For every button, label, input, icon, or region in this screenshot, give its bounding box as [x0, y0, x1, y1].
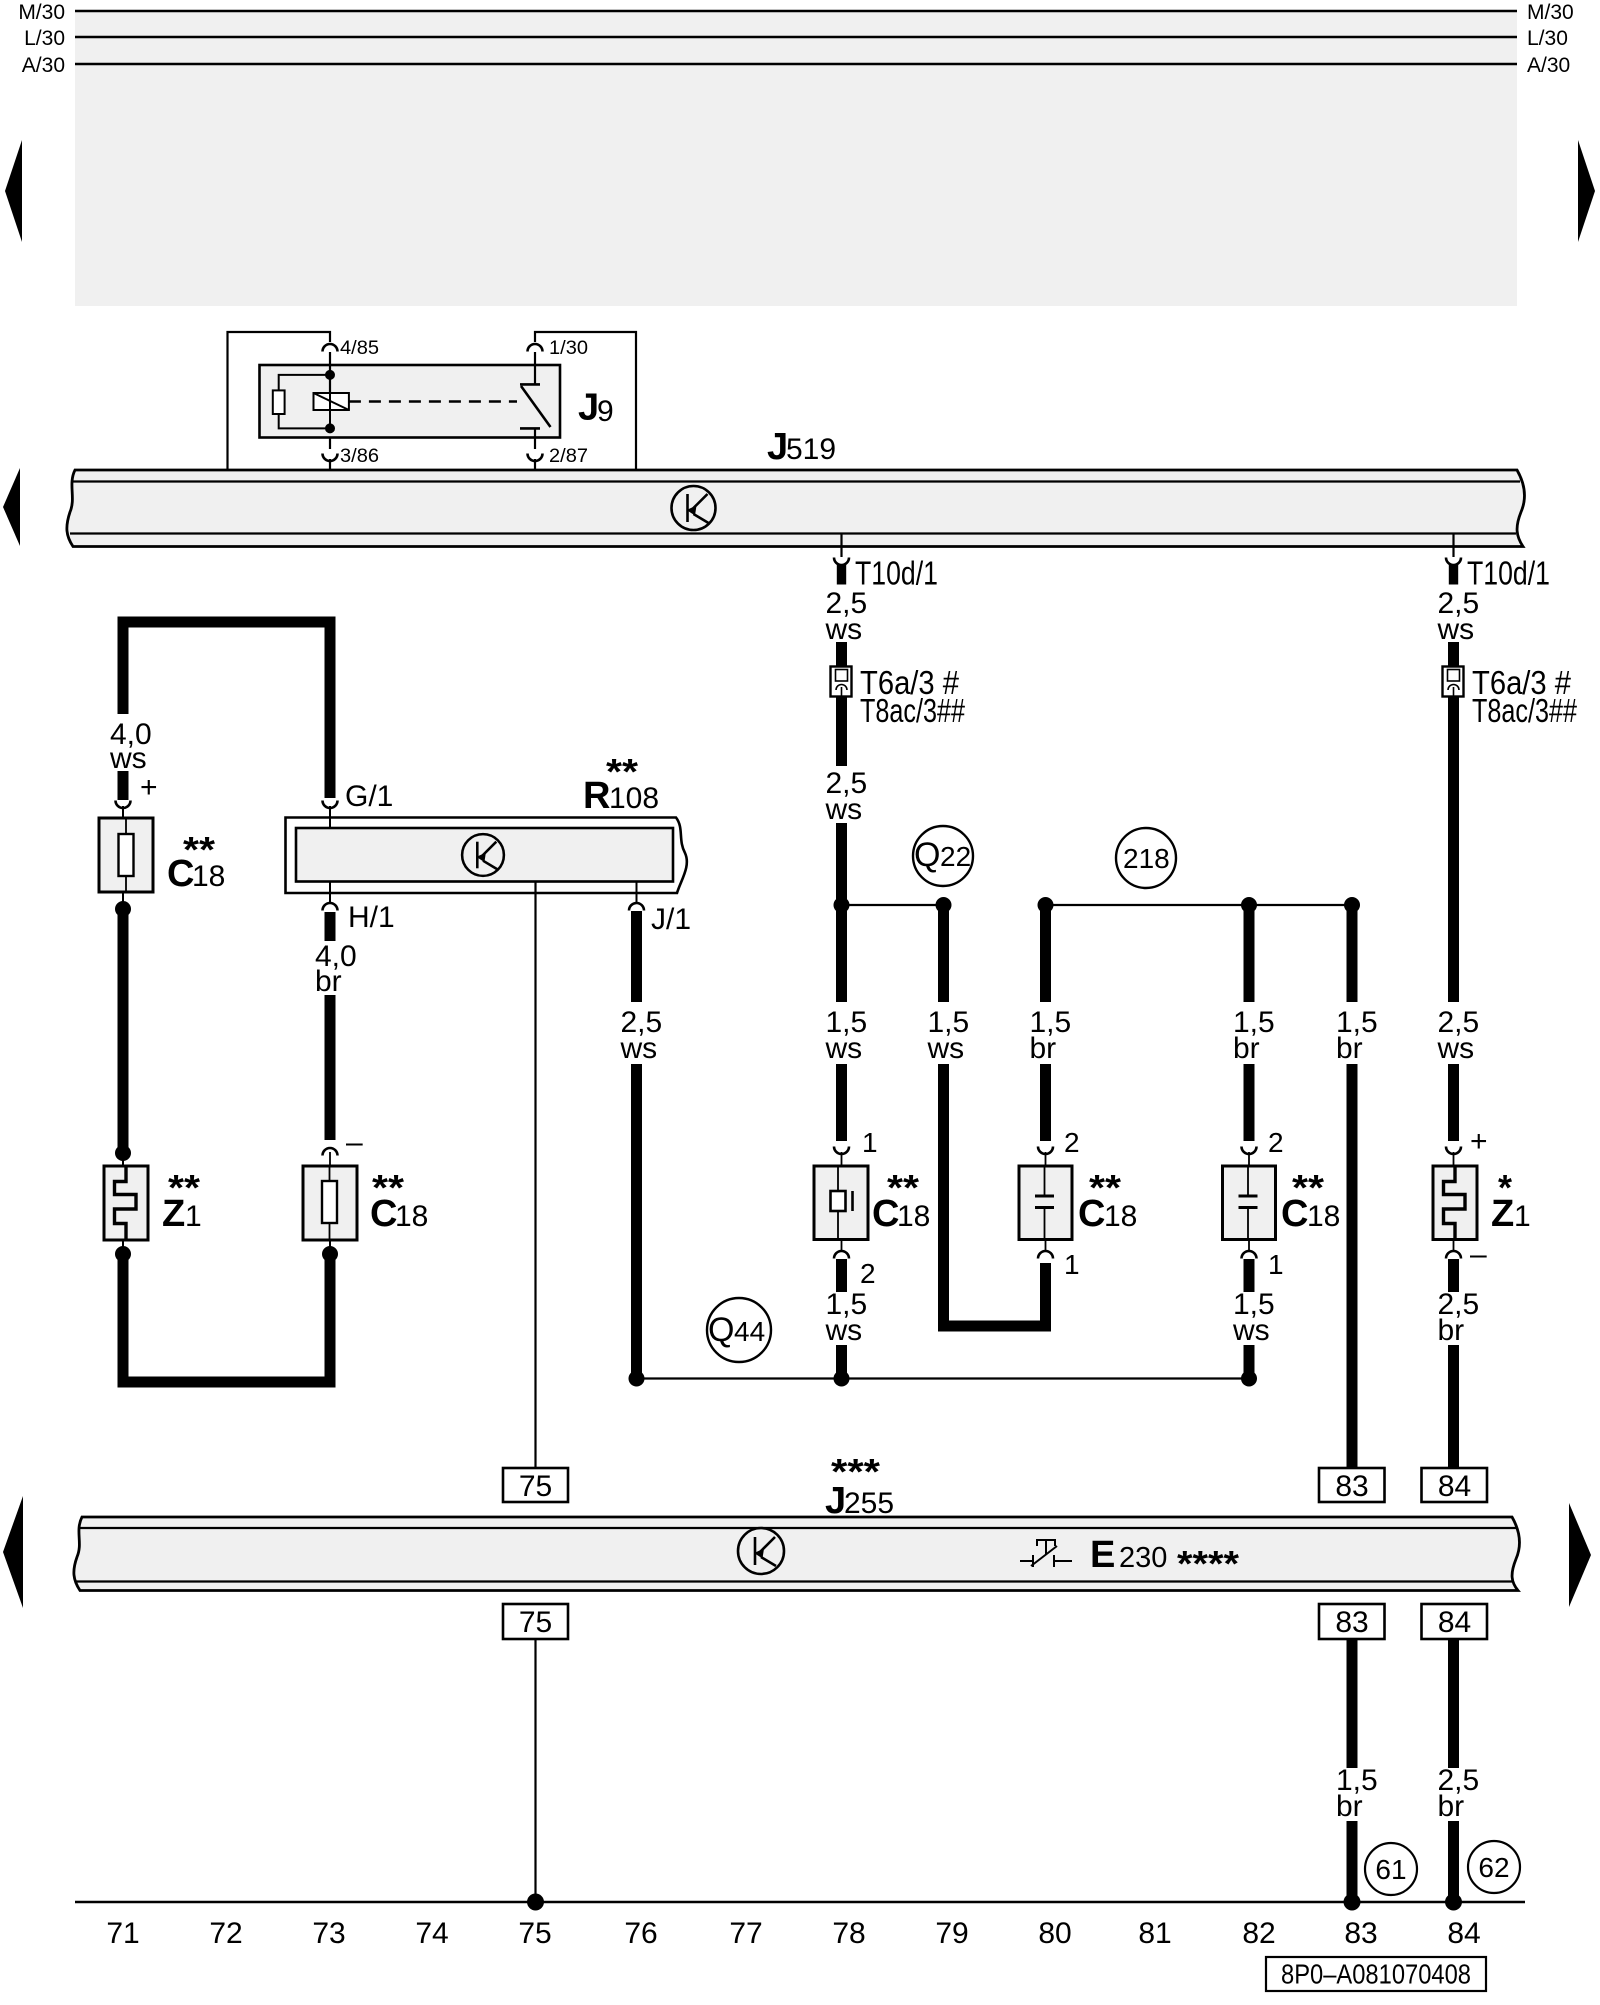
resistor top branch wire: [279, 375, 330, 391]
wire H/1 down to C18 minus thick: [325, 912, 336, 941]
pin 2/87 connector arc: [528, 454, 543, 462]
node Q44 col76: [629, 1371, 645, 1387]
svg-text:79: 79: [935, 1917, 968, 1950]
heated washer nozzle Z1 box: [104, 1166, 148, 1240]
wire node link Q22: [842, 904, 944, 906]
heated washer jet C18 box (+): [99, 818, 153, 892]
pin H/1 wire below R108: [329, 882, 331, 904]
wire col78 thick below pin 2: [836, 1259, 847, 1292]
capacitor C18 mid pin 1 arc: [1038, 1251, 1053, 1259]
E230 bus inner top line: [79, 1527, 1516, 1529]
svg-text:E: E: [1090, 1534, 1115, 1576]
pin 3/86 wire below relay: [329, 438, 331, 450]
wire into Z1: [122, 1153, 124, 1166]
wire col84 thick below box: [1448, 1639, 1459, 1768]
relay coil diagonal: [314, 393, 349, 410]
pin 3/86 connector arc: [323, 454, 338, 462]
capacitor C18 right pin 2 arc: [1242, 1147, 1257, 1155]
wire into suppressor: [841, 1152, 843, 1166]
connector plus arc col71: [116, 801, 131, 809]
E230 bus inner bottom line: [76, 1580, 1512, 1582]
svg-text:G/1: G/1: [345, 780, 393, 813]
svg-text:T10d/1: T10d/1: [1467, 555, 1550, 592]
node col83 junction: [1344, 897, 1360, 913]
wire node link 218: [1046, 904, 1353, 906]
wire col84 thick below minus: [1448, 1259, 1459, 1292]
svg-text:2: 2: [1064, 1127, 1080, 1158]
svg-text:75: 75: [518, 1917, 551, 1950]
wire col78 thick segment: [836, 642, 847, 666]
heated washer nozzle Z1 right box: [1433, 1166, 1477, 1240]
svg-text:br: br: [1438, 1314, 1465, 1347]
svg-text:C: C: [370, 1193, 397, 1235]
connection point 218 circle: [1116, 828, 1176, 888]
capacitor C18 right box: [1223, 1166, 1276, 1240]
svg-text:77: 77: [729, 1917, 762, 1950]
heated seat switch E230 bus bar: [74, 1517, 1520, 1591]
wire col84 long thick segment: [1448, 697, 1459, 1003]
wire col83 thick to rail: [1347, 1821, 1358, 1902]
R108 inner body: [296, 828, 673, 882]
resistor bottom branch wire: [279, 414, 330, 428]
heated washer jet supply U-wire: [123, 622, 330, 798]
svg-text:ws: ws: [825, 1032, 863, 1065]
svg-text:L/30: L/30: [1527, 27, 1568, 50]
svg-text:ws: ws: [1437, 613, 1475, 646]
pin G/1 connector arc: [323, 801, 338, 809]
svg-text:62: 62: [1478, 1852, 1509, 1883]
svg-text:****: ****: [1177, 1543, 1239, 1584]
wire col79 elbow to washer pump C18 pin 1: [944, 1064, 1046, 1326]
svg-text:84: 84: [1438, 1606, 1471, 1639]
terminal 84 upper box: [1422, 1468, 1488, 1502]
relay switch top contact: [520, 383, 540, 386]
rail L/30: [75, 36, 1517, 38]
wire col78 thick below node: [836, 905, 847, 1002]
wire into C18 minus box: [329, 1240, 331, 1254]
svg-text:br: br: [1233, 1032, 1260, 1065]
R108 internal connection symbol: [462, 834, 504, 876]
capacitor C18 right pin 1 arc: [1242, 1251, 1257, 1259]
suppressor element: [837, 1166, 839, 1191]
heated washer jet C18 box (-): [303, 1166, 357, 1240]
wire J/1 thick segment: [631, 911, 642, 1002]
pin J/1 wire below R108: [636, 882, 638, 904]
connection point Q22 circle: [913, 826, 973, 886]
diagram part number box: [1266, 1957, 1486, 1991]
connector T10d/1 left arc: [834, 558, 849, 566]
top band right continuation arrow: [1578, 140, 1595, 242]
svg-text:T8ac/3##: T8ac/3##: [1472, 692, 1577, 729]
relay J9 outer bracket left: [228, 332, 331, 470]
svg-text:br: br: [1336, 1790, 1363, 1823]
Z1 heater meander element: [115, 1166, 137, 1240]
svg-text:ws: ws: [1232, 1314, 1270, 1347]
suppressor C18 pin 2 arc: [834, 1251, 849, 1259]
svg-text:C: C: [167, 853, 194, 895]
terminal 83 upper box: [1319, 1468, 1385, 1502]
svg-text:83: 83: [1344, 1917, 1377, 1950]
wire col82 thick to pin 2: [1244, 1064, 1255, 1141]
svg-text:71: 71: [106, 1917, 139, 1950]
capacitor C18 mid pin 2 arc: [1038, 1147, 1053, 1155]
wire col84 thick to terminal 84: [1448, 1345, 1459, 1468]
wire into capacitor right: [1248, 1152, 1250, 1166]
relay J9 outer bracket right: [535, 332, 636, 470]
wire below suppressor: [841, 1240, 843, 1252]
ground reference 62 circle: [1468, 1841, 1520, 1893]
wire col78 thick to Q44 node: [836, 1345, 847, 1379]
Z1 right heater meander element: [1444, 1166, 1466, 1240]
wire into C18 washer jet box: [122, 806, 124, 818]
top band left continuation arrow: [5, 140, 22, 242]
wire below capacitor mid: [1045, 1240, 1047, 1252]
svg-text:84: 84: [1438, 1470, 1471, 1503]
svg-text:18: 18: [1307, 1200, 1340, 1233]
R108 outer body: [286, 818, 687, 894]
track rail: [75, 1901, 1525, 1903]
pin 3/86 wire to bus: [329, 459, 331, 470]
svg-text:1: 1: [1064, 1249, 1080, 1280]
svg-text:2/87: 2/87: [549, 446, 588, 467]
wire col82 thick below node: [1244, 905, 1255, 1002]
svg-text:+: +: [140, 771, 158, 804]
wire col71 thick segment: [118, 771, 129, 800]
svg-text:J: J: [578, 387, 599, 429]
svg-text:22: 22: [940, 841, 971, 872]
pin H/1 connector arc: [323, 903, 338, 911]
svg-text:218: 218: [1123, 843, 1170, 874]
capacitor element right: [1247, 1166, 1249, 1195]
wire col73 thick segment: [325, 995, 336, 1140]
node track 84: [1445, 1894, 1462, 1911]
svg-text:–: –: [346, 1126, 363, 1159]
svg-text:80: 80: [1038, 1917, 1071, 1950]
svg-text:78: 78: [832, 1917, 865, 1950]
ground reference 61 circle: [1365, 1843, 1417, 1895]
svg-text:75: 75: [519, 1606, 552, 1639]
junction node above Z1: [115, 1145, 131, 1161]
node col78 junction: [834, 897, 850, 913]
svg-text:519: 519: [786, 433, 836, 466]
C18 heater element: [119, 834, 134, 876]
wire J519 pin to T10d/1 left: [840, 534, 842, 558]
svg-text:81: 81: [1138, 1917, 1171, 1950]
svg-text:A/30: A/30: [1527, 54, 1570, 77]
svg-text:br: br: [315, 965, 342, 998]
wire col76 thick segment to Q44 node: [631, 1064, 642, 1379]
svg-text:1: 1: [1268, 1249, 1284, 1280]
rail A/30: [75, 63, 1517, 65]
relay coil: [314, 393, 349, 410]
svg-text:108: 108: [609, 782, 659, 815]
relay coil wire through: [329, 375, 331, 429]
C18 minus heater element: [322, 1181, 337, 1223]
terminal 83 lower box: [1319, 1604, 1385, 1639]
connector minus arc col73: [323, 1148, 338, 1156]
wire col84 thick segment: [1448, 642, 1459, 666]
svg-text:44: 44: [734, 1316, 765, 1347]
wire col80 thick to pin 2: [1040, 1064, 1051, 1141]
pin 1/30 connector arc: [528, 344, 543, 352]
capacitor element mid: [1044, 1166, 1046, 1195]
svg-text:84: 84: [1447, 1917, 1480, 1950]
rail M/30: [75, 10, 1517, 12]
terminal 75 lower box: [503, 1604, 568, 1639]
svg-text:br: br: [1438, 1790, 1465, 1823]
E230 left continuation arrow: [3, 1496, 23, 1608]
relay switch blade: [521, 386, 551, 427]
node col79 junction: [936, 897, 952, 913]
pin 2/87 wire to bus: [534, 459, 536, 470]
wire col80 thick below node: [1040, 905, 1051, 1002]
pin J/1 connector arc: [629, 903, 644, 911]
wire col84 thick to plus: [1448, 1064, 1459, 1141]
terminal 84 lower box: [1422, 1604, 1488, 1639]
svg-text:1/30: 1/30: [549, 338, 588, 359]
interference suppressor C18 box: [814, 1166, 868, 1240]
pin 1/30 wire into relay switch: [534, 352, 536, 385]
node Q44 col78: [834, 1371, 850, 1387]
wire col79 thick below node: [938, 905, 949, 1002]
svg-text:Z: Z: [1491, 1193, 1514, 1235]
wire col78 thick to pin 1: [836, 1064, 847, 1141]
svg-text:73: 73: [312, 1917, 345, 1950]
svg-text:C: C: [1281, 1193, 1308, 1235]
svg-text:M/30: M/30: [1527, 1, 1574, 24]
svg-text:1: 1: [862, 1127, 878, 1158]
capacitor C18 mid box: [1019, 1166, 1072, 1240]
control unit J519 bus bar: [67, 470, 1525, 547]
svg-text:C: C: [872, 1193, 899, 1235]
svg-text:J/1: J/1: [651, 903, 691, 936]
E230 push-button switch icon: [1020, 1540, 1072, 1567]
J519 left continuation arrow: [3, 468, 20, 546]
wire below Z1 right: [1453, 1240, 1455, 1252]
relay switch bottom contact: [520, 427, 540, 430]
svg-text:18: 18: [1104, 1200, 1137, 1233]
wire col78 thick segment to node: [836, 823, 847, 905]
svg-text:R: R: [583, 775, 610, 817]
junction node coil bottom: [325, 423, 335, 433]
wire col82 thick to Q44 node: [1244, 1345, 1255, 1379]
J519 internal connection symbol: [672, 486, 716, 530]
terminal 75 upper box: [503, 1468, 568, 1502]
top gray band: [75, 11, 1517, 306]
wire below capacitor right: [1248, 1240, 1250, 1252]
Z1 right minus arc: [1446, 1251, 1461, 1259]
svg-text:A/30: A/30: [22, 54, 65, 77]
wire into Z1 right: [1453, 1152, 1455, 1166]
wire J519 pin to T10d/1 right: [1452, 534, 1454, 558]
wire col78 thick segment: [836, 697, 847, 767]
junction node below C18: [122, 892, 124, 909]
connector T6a/3 right box: [1443, 667, 1464, 697]
node col80 junction: [1038, 897, 1054, 913]
J519 bus inner bottom line: [70, 532, 1516, 534]
svg-text:Q: Q: [914, 836, 940, 874]
svg-text:ws: ws: [1437, 1032, 1475, 1065]
svg-text:82: 82: [1242, 1917, 1275, 1950]
relay coil parallel resistor: [273, 390, 285, 414]
pin G/1 wire into R108: [329, 806, 331, 829]
svg-text:M/30: M/30: [18, 1, 65, 24]
pin 4/85 connector arc: [323, 344, 338, 352]
wire col83 thick below box: [1347, 1639, 1358, 1768]
svg-text:C: C: [1078, 1193, 1105, 1235]
svg-text:br: br: [1336, 1032, 1363, 1065]
svg-text:L/30: L/30: [24, 27, 65, 50]
svg-text:8P0–A081070408: 8P0–A081070408: [1281, 1959, 1471, 1990]
relay switch bottom wire: [534, 428, 536, 449]
junction node below C18 minus: [322, 1246, 338, 1262]
heated washer nozzle Z1 plus arc: [1446, 1147, 1461, 1155]
svg-text:+: +: [1470, 1125, 1488, 1158]
svg-text:76: 76: [624, 1917, 657, 1950]
E230 right continuation arrow: [1569, 1503, 1591, 1607]
pin 4/85 wire into relay: [329, 352, 331, 394]
svg-text:1: 1: [1514, 1200, 1531, 1233]
svg-text:18: 18: [897, 1200, 930, 1233]
wire col83 thick below node: [1347, 905, 1358, 1002]
svg-text:H/1: H/1: [348, 901, 395, 934]
svg-text:ws: ws: [825, 1314, 863, 1347]
E230 internal connection symbol: [738, 1528, 784, 1574]
node Q44 col82: [1241, 1371, 1257, 1387]
svg-text:4/85: 4/85: [340, 338, 379, 359]
svg-text:255: 255: [844, 1487, 894, 1520]
connection point Q44 circle: [707, 1298, 771, 1362]
svg-text:J: J: [767, 426, 788, 468]
relay actuation dashed link: [349, 400, 517, 403]
svg-text:83: 83: [1335, 1606, 1368, 1639]
svg-text:18: 18: [192, 860, 225, 893]
connector T10d/1 right arc: [1446, 558, 1461, 566]
junction node below Z1: [122, 1240, 124, 1254]
wire Q44 junction line: [637, 1377, 1250, 1379]
suppressor C18 pin 1 arc: [834, 1147, 849, 1155]
svg-text:2: 2: [1268, 1127, 1284, 1158]
R108 control line to terminal 75: [534, 882, 536, 1469]
svg-text:2: 2: [860, 1258, 876, 1289]
connector T10d/1 left pin: [837, 565, 846, 585]
node col82 junction: [1241, 897, 1257, 913]
node track 75: [527, 1894, 544, 1911]
node track 83: [1344, 1894, 1361, 1911]
svg-text:3/86: 3/86: [340, 446, 379, 467]
svg-text:br: br: [1030, 1032, 1057, 1065]
wire col83 thick to terminal 83: [1347, 1064, 1358, 1468]
svg-text:74: 74: [415, 1917, 448, 1950]
svg-text:–: –: [1470, 1238, 1487, 1271]
svg-text:83: 83: [1335, 1470, 1368, 1503]
wire into capacitor: [1045, 1152, 1047, 1166]
svg-text:18: 18: [395, 1200, 428, 1233]
svg-text:ws: ws: [927, 1032, 965, 1065]
svg-text:72: 72: [209, 1917, 242, 1950]
wire col84 thick to rail: [1448, 1821, 1459, 1902]
svg-text:Z: Z: [162, 1193, 185, 1235]
svg-text:61: 61: [1375, 1854, 1406, 1885]
svg-text:230: 230: [1119, 1542, 1167, 1574]
svg-text:ws: ws: [620, 1032, 658, 1065]
svg-text:T8ac/3##: T8ac/3##: [860, 692, 965, 729]
svg-text:T10d/1: T10d/1: [855, 555, 938, 592]
connector T6a/3 left box: [831, 667, 852, 697]
svg-text:9: 9: [597, 395, 614, 428]
wire C18 to Z1 thick: [118, 909, 129, 1153]
J519 bus inner top line: [73, 480, 1520, 482]
relay J9 body box: [260, 365, 561, 438]
return loop wire Z1 to C18 (-): [123, 1254, 330, 1382]
wire terminal 75 to track rail: [534, 1639, 536, 1902]
junction node coil top: [325, 370, 335, 380]
svg-text:ws: ws: [825, 613, 863, 646]
svg-text:ws: ws: [825, 793, 863, 826]
wire col82 thick below pin 1: [1244, 1259, 1255, 1292]
svg-text:Q: Q: [708, 1311, 734, 1349]
connector T10d/1 right pin: [1449, 565, 1458, 585]
svg-text:1: 1: [185, 1200, 202, 1233]
svg-text:75: 75: [519, 1470, 552, 1503]
